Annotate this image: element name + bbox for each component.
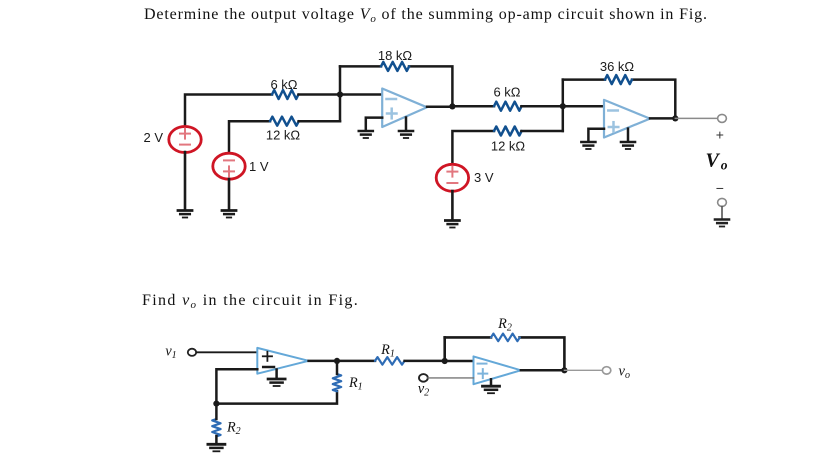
resistor R1 (horizontal, U3 out to U4 input) <box>375 357 404 365</box>
wire U1 body ground stub <box>405 118 408 131</box>
svg-text:Determine the output voltage V: Determine the output voltage Vo of the s… <box>144 6 708 25</box>
wire U1 output to node B line <box>427 105 494 108</box>
ground (R2) <box>208 444 225 451</box>
node E junction dot (U3 output) <box>334 358 340 364</box>
wire 1V to ground <box>228 179 231 209</box>
voltage source 3V (circle) <box>436 164 468 191</box>
wire node G to vo terminal (gray) <box>564 369 602 371</box>
wire node F up to R2 feedback <box>443 337 446 361</box>
wire U2 output to node C <box>650 117 675 120</box>
ground (U1 body) <box>399 131 413 138</box>
svg-text:6 kΩ: 6 kΩ <box>493 85 520 100</box>
resistor 6 kOhm (stage 1 input 1) <box>272 90 298 99</box>
op-amp U2 plus input mark <box>609 126 619 129</box>
resistor 12 kOhm (stage 2 input 2) <box>494 127 522 136</box>
resistor R2 (feedback U4) <box>491 334 520 342</box>
svg-text:6 kΩ: 6 kΩ <box>270 77 297 92</box>
wire 12k stage2 to node B vertical <box>521 130 562 133</box>
op-amp U3 minus input mark (black) <box>263 366 274 369</box>
wire node D to R1 bottom <box>216 391 337 403</box>
op-amp U4 plus input mark (blue) <box>478 373 487 375</box>
ground (U1 + input) <box>359 131 373 138</box>
voltage source 2V (circle) <box>169 127 201 153</box>
wire terminal minus to ground (gray stub) <box>721 207 723 219</box>
ground (U3 body) <box>268 379 285 386</box>
wire U4 output to node G <box>521 369 565 372</box>
op-amp U4 minus input mark (blue) <box>478 363 487 365</box>
resistor 12 kOhm (stage 1 input 2) <box>270 117 299 126</box>
svg-text:12 kΩ: 12 kΩ <box>491 138 526 153</box>
output terminal minus (open circle) <box>718 198 727 206</box>
op-amp U1 triangle <box>382 89 427 128</box>
wire U3 body ground stub <box>275 370 278 378</box>
output terminal vo (open circle) <box>602 367 610 374</box>
voltage source 1V (circle) <box>213 153 245 179</box>
op-amp U3 plus input mark (black) <box>263 355 272 357</box>
wire node C to output terminal (gray) <box>675 117 717 119</box>
svg-text:3 V: 3 V <box>474 170 494 185</box>
ground (3V source) <box>445 221 459 228</box>
input terminal v1 (open circle) <box>188 349 196 356</box>
resistor 36 kOhm (feedback U2) <box>605 75 632 84</box>
wire node A to op-amp U1 inverting input <box>340 93 382 96</box>
wire U3 output <box>309 360 375 363</box>
node C junction dot (U2 output) <box>672 115 678 121</box>
2V source plus mark <box>180 129 190 145</box>
1V source minus mark (top) and plus mark (bottom) <box>224 160 234 176</box>
op-amp U1 plus input mark <box>387 112 397 115</box>
svg-text:Find vo in the circuit in Fig.: Find vo in the circuit in Fig. <box>142 292 359 311</box>
resistor 18 kOhm (feedback U1) <box>381 62 409 71</box>
output terminal + (open circle) <box>718 114 727 122</box>
svg-text:18 kΩ: 18 kΩ <box>378 48 413 63</box>
ground (U2 body) <box>621 142 635 149</box>
wire R1 top to U3 output node <box>336 361 339 374</box>
node A junction dot <box>337 91 343 97</box>
svg-text:12 kΩ: 12 kΩ <box>266 128 301 143</box>
wire 6k stage2 to node B <box>521 105 562 108</box>
wire node B vertical (36k feedback top to 12k line) <box>562 80 565 131</box>
wire node D to R2 and R2 to ground <box>215 404 218 419</box>
wire U3 inverting input feedback (left and down) <box>216 369 257 403</box>
svg-text:36 kΩ: 36 kΩ <box>600 59 635 74</box>
svg-text:+: + <box>716 127 724 143</box>
ground (1V source) <box>222 211 236 218</box>
wire 12k to node A vertical <box>299 120 340 123</box>
input terminal v2 (open circle) <box>419 374 428 382</box>
wire 2V source top to 6k input line <box>185 95 272 129</box>
node F junction dot (U4 input node) <box>442 358 448 364</box>
svg-text:2 V: 2 V <box>143 130 163 145</box>
wire 3V to ground <box>451 191 454 219</box>
wire U4 body ground stub <box>490 379 493 385</box>
wire v2 terminal to U4 + input (gray) <box>428 377 474 379</box>
svg-text:1 V: 1 V <box>249 159 269 174</box>
wire node F to U4 inverting input <box>445 360 474 363</box>
wire 2V to ground <box>184 152 187 209</box>
node G junction dot (U4 output) <box>561 367 567 373</box>
op-amp U1 minus input mark <box>387 98 397 101</box>
op-amp U2 minus input mark <box>608 109 618 112</box>
wire v1 terminal to U3 + input <box>196 351 257 353</box>
op-amp U3 triangle <box>257 348 308 374</box>
wire 3V to 12k stage 2 <box>452 131 494 163</box>
ground (U2 + input) <box>581 142 595 149</box>
node B junction dot <box>560 103 566 109</box>
wire 1V source to 12k <box>229 121 270 154</box>
ground (output terminal) <box>715 220 729 227</box>
op-amp U2 triangle <box>604 100 650 138</box>
wire U2 body ground stub <box>627 129 630 141</box>
wire U1 noninverting input to ground <box>366 118 382 130</box>
svg-text:−: − <box>716 180 724 196</box>
ground (2V source) <box>178 211 192 218</box>
wire U2 noninverting input to ground <box>588 129 604 141</box>
wire 18k feedback (up, across, down to U1 output) <box>340 65 381 68</box>
wire node B to op-amp U2 inverting input <box>563 105 604 108</box>
wire R2 feedback top (across, down to U4 output) <box>445 336 491 339</box>
resistor 6 kOhm (stage 2 input 1) <box>494 102 522 111</box>
op-amp U4 triangle <box>474 356 521 384</box>
resistor R2 (vertical, node D to ground) <box>212 419 220 436</box>
wire 36k feedback (across, down to U2 output) <box>563 78 605 81</box>
wire 6k to node A <box>299 93 341 96</box>
wire R1 to node F <box>405 360 445 363</box>
3V source plus mark <box>447 167 457 183</box>
wire node A vertical (feedback top to 12k line) <box>339 66 342 121</box>
resistor R1 (vertical, to output of U3) <box>333 374 341 391</box>
node D junction dot (R2 tap) <box>213 401 219 407</box>
node U1 output junction dot <box>449 103 455 109</box>
ground (U4 body) <box>483 386 500 393</box>
